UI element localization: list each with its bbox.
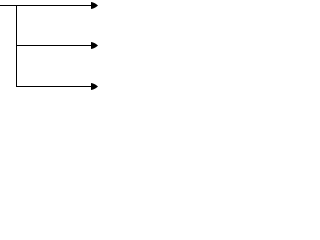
- wire: vertical trunk: [16, 5, 17, 87]
- wire: middle horizontal branch: [16, 45, 92, 46]
- arrowhead: middle branch: [91, 42, 98, 49]
- wire: bottom horizontal branch: [16, 86, 92, 87]
- wire: top horizontal branch: [0, 5, 92, 6]
- arrowhead: top branch: [91, 2, 98, 9]
- arrowhead: bottom branch: [91, 83, 98, 90]
